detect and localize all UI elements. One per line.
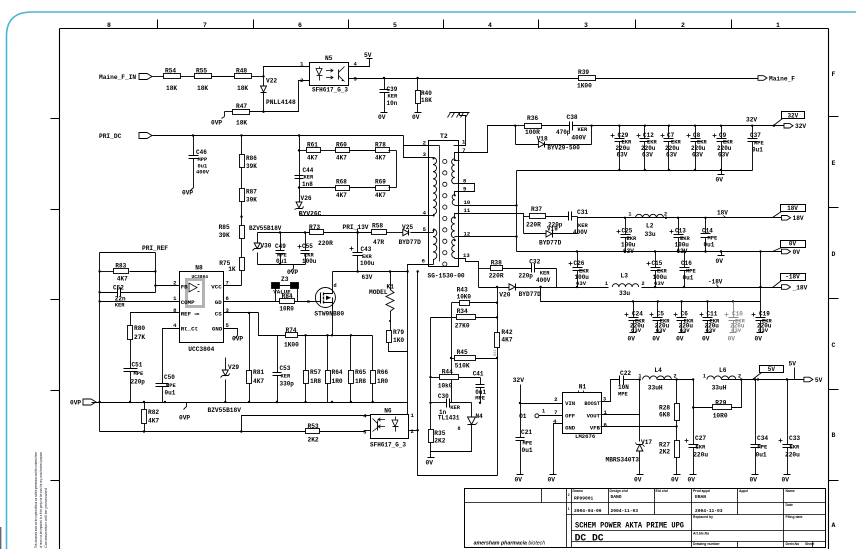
svg-text:C37: C37 xyxy=(750,132,761,139)
svg-text:0V: 0V xyxy=(789,241,797,248)
svg-text:R66: R66 xyxy=(377,369,388,376)
resistor R34 xyxy=(457,315,476,320)
svg-text:C5: C5 xyxy=(657,311,665,318)
svg-text:SG-1530-00: SG-1530-00 xyxy=(428,273,465,280)
wire COMP pin1 to left bus xyxy=(100,301,180,303)
wire lower rail to R53 xyxy=(99,403,101,432)
wire T2 pin7 riser xyxy=(460,126,516,153)
ground 0V C34 xyxy=(755,471,757,475)
wire bank rail to pin10 xyxy=(516,171,518,206)
resistor R36 xyxy=(516,125,525,127)
capacitor C14 xyxy=(705,218,707,234)
snubber left column 32V xyxy=(515,126,517,145)
svg-text:18V: 18V xyxy=(787,205,798,212)
svg-text:MPE: MPE xyxy=(618,392,628,398)
svg-text:PRI_DC: PRI_DC xyxy=(99,133,122,140)
svg-text:0V: 0V xyxy=(755,336,763,343)
svg-text:1R0: 1R0 xyxy=(377,378,388,385)
svg-text:Prod appd: Prod appd xyxy=(693,489,710,493)
capacitor C10 xyxy=(733,302,735,318)
svg-text:KER: KER xyxy=(540,271,550,277)
svg-text:KER: KER xyxy=(388,94,398,100)
svg-text:0V: 0V xyxy=(628,336,636,343)
svg-text:UCC3804: UCC3804 xyxy=(188,346,214,353)
resistor R37 xyxy=(524,216,530,218)
svg-text:0V: 0V xyxy=(688,477,696,484)
svg-text:2K2: 2K2 xyxy=(659,449,670,456)
svg-text:4K7: 4K7 xyxy=(253,378,264,385)
svg-text:MPE: MPE xyxy=(134,371,144,377)
svg-text:220R: 220R xyxy=(489,273,504,280)
svg-text:0VP: 0VP xyxy=(70,400,81,407)
resistor R68 xyxy=(300,187,336,189)
svg-text:0V: 0V xyxy=(652,336,660,343)
svg-text:0u1: 0u1 xyxy=(165,390,176,397)
svg-text:39K: 39K xyxy=(219,232,230,239)
boxed flag 0V xyxy=(781,241,806,248)
svg-text:BYV26C: BYV26C xyxy=(299,211,322,218)
ground 0VP cluster xyxy=(293,265,295,269)
svg-text:R61: R61 xyxy=(307,142,318,149)
svg-text:2K2: 2K2 xyxy=(308,437,319,444)
capacitor C12 xyxy=(644,126,646,139)
ground 0V V17 xyxy=(639,471,641,475)
resistor R84 xyxy=(280,299,295,304)
capacitor C15 xyxy=(651,267,661,269)
ground 0V C33 xyxy=(787,471,789,475)
wire L4 out node xyxy=(658,379,694,381)
svg-text:0V: 0V xyxy=(378,114,386,121)
svg-text:0VP: 0VP xyxy=(232,336,243,343)
wire O1 to OFF xyxy=(539,415,563,417)
svg-text:C33: C33 xyxy=(789,435,800,442)
wire VIN row xyxy=(521,403,563,405)
svg-text:VIN: VIN xyxy=(565,400,575,407)
wire snubber right column xyxy=(389,187,397,189)
svg-text:KER: KER xyxy=(450,405,460,411)
svg-text:1K: 1K xyxy=(228,266,236,273)
svg-text:R37: R37 xyxy=(531,206,542,213)
ground 0V at R40 xyxy=(417,109,419,113)
svg-text:GND: GND xyxy=(565,424,576,431)
diode V20 xyxy=(479,287,510,289)
wire T2 pin11 xyxy=(460,213,518,215)
svg-text:2: 2 xyxy=(681,22,685,29)
svg-text:L6: L6 xyxy=(719,367,727,374)
svg-text:BOOST: BOOST xyxy=(584,401,600,407)
svg-text:18V: 18V xyxy=(793,215,804,222)
resistor R66 xyxy=(372,336,374,371)
resistor R44 xyxy=(440,375,459,380)
svg-text:BYV29-500: BYV29-500 xyxy=(547,145,580,152)
svg-text:BYD77D: BYD77D xyxy=(519,291,542,298)
wire R55-R48 xyxy=(212,76,235,78)
wire R87-R85 xyxy=(241,202,243,226)
capacitor C16 xyxy=(680,267,690,269)
svg-text:4K7: 4K7 xyxy=(501,337,512,344)
resistor R38 xyxy=(479,268,491,270)
resistor R27 xyxy=(675,441,680,458)
svg-text:SFH617_G_3: SFH617_G_3 xyxy=(312,87,348,94)
wire T2 pin10 xyxy=(460,205,517,207)
flag Maine_F output xyxy=(758,76,767,81)
svg-text:10R0: 10R0 xyxy=(713,413,728,420)
svg-text:400V: 400V xyxy=(572,135,587,142)
diode V19 xyxy=(524,233,547,235)
svg-text:4K7: 4K7 xyxy=(148,418,159,425)
svg-text:-18V: -18V xyxy=(785,274,800,281)
svg-text:R79: R79 xyxy=(393,329,404,336)
svg-text:C15: C15 xyxy=(652,260,663,267)
capacitor C19 xyxy=(760,302,762,318)
svg-text:18K: 18K xyxy=(421,97,432,104)
svg-text:V25: V25 xyxy=(402,224,413,231)
svg-text:7: 7 xyxy=(203,22,207,29)
svg-text:1: 1 xyxy=(568,507,570,511)
svg-text:C44: C44 xyxy=(303,167,314,174)
svg-text:STW9NB80: STW9NB80 xyxy=(314,311,344,318)
svg-text:N6: N6 xyxy=(384,408,392,415)
svg-text:C46: C46 xyxy=(196,149,207,156)
svg-text:_18V: _18V xyxy=(792,284,808,291)
zener V26 xyxy=(296,202,302,208)
optocoupler N6 xyxy=(371,415,409,439)
svg-text:C52: C52 xyxy=(113,285,124,292)
capacitor C37 xyxy=(752,126,754,139)
svg-text:Eld chd: Eld chd xyxy=(656,489,668,493)
resistor R54 xyxy=(164,74,181,79)
ground 0V C19 xyxy=(757,332,764,334)
svg-text:R74: R74 xyxy=(286,327,297,334)
svg-text:4K7: 4K7 xyxy=(375,192,386,199)
capacitor C31 xyxy=(568,212,570,221)
svg-text:C9: C9 xyxy=(719,132,727,139)
svg-text:SCHEM POWER AKTA PRIME UPG: SCHEM POWER AKTA PRIME UPG xyxy=(575,522,684,531)
svg-text:R38: R38 xyxy=(491,260,502,267)
svg-text:R87: R87 xyxy=(246,189,257,196)
wire VCC pin7 xyxy=(224,285,242,287)
wire R85-R75 with PRI_REF tap xyxy=(241,239,243,258)
wire PRI_DC to T2 pin2 pin3 xyxy=(404,136,429,158)
svg-text:DANO: DANO xyxy=(611,494,622,500)
resistor R82 xyxy=(144,403,146,410)
svg-text:0u1: 0u1 xyxy=(756,452,767,459)
svg-text:C25: C25 xyxy=(622,228,633,235)
svg-text:R54: R54 xyxy=(165,68,176,75)
svg-text:EKR: EKR xyxy=(790,445,800,451)
snubber -18V columns xyxy=(478,269,480,288)
svg-text:470p: 470p xyxy=(556,129,571,136)
svg-text:400V: 400V xyxy=(196,170,210,176)
wire -18V cap bank rail xyxy=(541,288,761,302)
capacitor C44 xyxy=(295,175,304,177)
svg-text:220R: 220R xyxy=(318,240,333,247)
svg-text:220u: 220u xyxy=(693,452,708,459)
resistor R47 xyxy=(233,110,250,115)
capacitor C41 xyxy=(480,378,482,385)
svg-text:C55: C55 xyxy=(302,243,313,250)
svg-text:1R8: 1R8 xyxy=(310,378,321,385)
svg-text:MPE: MPE xyxy=(758,445,768,451)
wire VFB node xyxy=(601,426,677,428)
svg-text:Drawing number: Drawing number xyxy=(693,542,720,546)
svg-text:V20: V20 xyxy=(499,292,510,299)
diode V25 xyxy=(403,229,409,235)
inductor L2 xyxy=(636,214,664,217)
svg-text:C24: C24 xyxy=(632,311,643,318)
svg-text:63V: 63V xyxy=(642,152,653,159)
capacitor C55 xyxy=(305,233,307,251)
svg-text:1K00: 1K00 xyxy=(577,83,592,90)
svg-text:KER: KER xyxy=(115,303,125,309)
capacitor C11 xyxy=(707,302,709,318)
diode V18 xyxy=(591,126,593,145)
svg-text:C16: C16 xyxy=(681,260,692,267)
flag 18V output xyxy=(782,216,791,221)
svg-text:C29: C29 xyxy=(618,132,629,139)
svg-text:C6: C6 xyxy=(681,311,689,318)
svg-text:N8: N8 xyxy=(195,265,203,272)
wire node to N5 pin1 xyxy=(264,67,310,77)
capacitor C46 xyxy=(193,136,195,156)
svg-text:ERAN: ERAN xyxy=(695,494,706,500)
wire left bus xyxy=(99,253,101,403)
svg-text:C10: C10 xyxy=(732,311,743,318)
wire snubber left column xyxy=(299,136,301,151)
svg-text:R44: R44 xyxy=(442,369,453,376)
svg-text:OFF: OFF xyxy=(565,413,576,420)
svg-text:2004-04-06: 2004-04-06 xyxy=(574,508,602,514)
svg-text:C53: C53 xyxy=(280,365,291,372)
wire R44 row xyxy=(431,377,440,379)
resistor R86 xyxy=(241,136,243,155)
svg-text:R85: R85 xyxy=(219,224,230,231)
svg-text:C14: C14 xyxy=(702,228,713,235)
svg-text:10N: 10N xyxy=(618,384,629,391)
power 5V riser xyxy=(794,368,796,380)
svg-text:R34: R34 xyxy=(457,308,468,315)
inductor L3 xyxy=(612,284,638,287)
ground 0V R35 xyxy=(430,443,432,454)
flag 5V output xyxy=(804,377,813,382)
capacitor C52 xyxy=(100,292,118,294)
svg-text:C7: C7 xyxy=(667,132,675,139)
svg-text:R39: R39 xyxy=(578,69,589,76)
frame column ticks top xyxy=(157,20,159,29)
svg-text:N1: N1 xyxy=(579,384,587,391)
frame row ticks left xyxy=(51,118,60,120)
svg-text:220R: 220R xyxy=(526,222,541,229)
svg-text:0V: 0V xyxy=(676,336,684,343)
svg-text:Replaced by: Replaced by xyxy=(693,515,713,519)
svg-text:MODEL: MODEL xyxy=(369,289,388,296)
wire 0V drop xyxy=(516,206,518,252)
svg-text:0V: 0V xyxy=(716,177,724,184)
svg-text:L3: L3 xyxy=(621,273,629,280)
svg-text:10k0: 10k0 xyxy=(438,383,453,390)
svg-text:R68: R68 xyxy=(336,179,347,186)
svg-text:VOUT: VOUT xyxy=(587,413,601,420)
diode V22 xyxy=(263,77,265,86)
svg-text:C8: C8 xyxy=(693,132,701,139)
capacitor C22 xyxy=(619,376,621,385)
svg-text:V29: V29 xyxy=(228,364,239,371)
wire R43 row xyxy=(452,302,460,304)
svg-text:10R0: 10R0 xyxy=(279,306,294,313)
svg-text:0u1: 0u1 xyxy=(704,242,715,249)
svg-text:0V: 0V xyxy=(750,477,758,484)
svg-text:KER: KER xyxy=(281,374,291,380)
svg-text:BZV55B18V: BZV55B18V xyxy=(249,225,282,232)
T2 core xyxy=(443,159,447,163)
svg-text:5: 5 xyxy=(393,22,397,29)
svg-text:C50: C50 xyxy=(164,374,175,381)
resistor R74 xyxy=(286,333,298,338)
capacitor C29 xyxy=(619,126,621,139)
svg-text:4K7: 4K7 xyxy=(336,192,347,199)
svg-text:R83: R83 xyxy=(115,263,126,270)
svg-text:R65: R65 xyxy=(355,369,366,376)
wire R54-R55 xyxy=(181,76,195,78)
resistor R57 xyxy=(305,336,307,371)
svg-text:C12: C12 xyxy=(643,132,654,139)
resistor R43 xyxy=(460,301,470,306)
svg-text:C41: C41 xyxy=(473,371,484,378)
chassis ground xyxy=(450,112,470,114)
wire 32V rail xyxy=(592,125,784,127)
svg-text:0V: 0V xyxy=(793,249,801,256)
wire GND pin4 down xyxy=(554,424,563,471)
wire R37-C31 xyxy=(546,216,569,218)
wire T2 pin6 down xyxy=(408,265,429,352)
svg-text:RP99001: RP99001 xyxy=(574,496,594,502)
wire R38-C32 xyxy=(503,268,532,270)
wire T2 pin6 net to N6 pin2 and bottom rail xyxy=(418,272,498,476)
ground 0V at C39 xyxy=(384,109,386,113)
capacitor C8 xyxy=(695,126,697,139)
svg-text:R42: R42 xyxy=(494,350,498,356)
ic N8 UCC3804 xyxy=(180,272,224,343)
frame row ticks right xyxy=(829,116,839,118)
relay coil K1 MODEL xyxy=(390,272,392,290)
ground 0VP at C46 xyxy=(193,184,195,188)
wire 5V rail xyxy=(722,379,804,381)
wire R61-R60 xyxy=(321,150,336,152)
capacitor C49 xyxy=(280,233,282,251)
wire 0V rail xyxy=(517,251,782,253)
zener V30 xyxy=(257,233,259,244)
svg-text:63V: 63V xyxy=(666,152,677,159)
transformer T2 xyxy=(429,141,459,267)
svg-text:8: 8 xyxy=(458,426,461,432)
svg-text:18K: 18K xyxy=(166,85,177,92)
svg-text:220p: 220p xyxy=(519,273,534,280)
svg-text:10n: 10n xyxy=(387,100,398,107)
wire R75 to VCC xyxy=(241,271,243,286)
wire R29 tap xyxy=(693,380,695,408)
resistor R29 xyxy=(694,407,713,409)
svg-text:VCC: VCC xyxy=(211,283,222,290)
svg-text:C31: C31 xyxy=(577,209,588,216)
ground 0V C27 xyxy=(693,471,695,475)
resistor R48 xyxy=(235,74,252,79)
ground 0V C24 xyxy=(630,332,637,334)
svg-text:MPE: MPE xyxy=(475,396,485,402)
ground 0VP at R47 xyxy=(225,111,233,113)
svg-text:V18: V18 xyxy=(537,136,548,143)
wire V26 to T2 pin4 row xyxy=(299,212,301,216)
wire CS row xyxy=(224,312,259,314)
svg-text:1R8: 1R8 xyxy=(355,378,366,385)
capacitor C5 xyxy=(657,302,659,318)
resistor R60 xyxy=(336,148,350,153)
resistor R53 xyxy=(306,429,320,434)
ground 0V C21 xyxy=(520,471,522,475)
svg-text:PNLL4148: PNLL4148 xyxy=(266,99,296,106)
svg-text:V26: V26 xyxy=(301,195,312,202)
svg-text:C27: C27 xyxy=(695,435,706,442)
svg-text:0VP: 0VP xyxy=(179,415,190,422)
svg-text:B: B xyxy=(832,432,836,439)
svg-text:63V: 63V xyxy=(362,274,373,281)
ground 0VP mid rail xyxy=(186,403,188,407)
svg-text:4: 4 xyxy=(488,22,492,29)
T2 pin1 inner wire xyxy=(455,160,460,162)
ground 0V C6 xyxy=(679,332,686,334)
svg-text:4K7: 4K7 xyxy=(117,276,128,283)
resistor R45 xyxy=(455,356,476,361)
svg-text:R60: R60 xyxy=(336,142,347,149)
svg-text:R43: R43 xyxy=(457,287,468,294)
svg-text:0u1: 0u1 xyxy=(522,447,533,454)
ground 0V C11 xyxy=(705,332,712,334)
svg-text:C: C xyxy=(832,342,836,349)
resistor R69 xyxy=(376,186,390,191)
svg-text:1: 1 xyxy=(776,22,780,29)
capacitor C7 xyxy=(668,126,670,139)
resistor R73 xyxy=(310,230,324,235)
svg-text:D: D xyxy=(832,251,836,258)
capacitor C13 xyxy=(678,218,680,235)
ferrite Z3 xyxy=(275,286,277,302)
svg-text:R45: R45 xyxy=(457,349,468,356)
svg-text:L2: L2 xyxy=(646,223,654,230)
title block xyxy=(465,489,826,548)
wire REF pin8 xyxy=(131,313,180,326)
svg-text:18K: 18K xyxy=(197,85,208,92)
svg-text:C22: C22 xyxy=(620,370,631,377)
resistor R65 xyxy=(350,336,352,371)
svg-text:39K: 39K xyxy=(246,197,257,204)
svg-text:amersham pharmacia biotech: amersham pharmacia biotech xyxy=(474,541,546,547)
svg-text:Appd: Appd xyxy=(739,489,748,493)
svg-text:BYD77D: BYD77D xyxy=(539,240,562,247)
svg-text:T2: T2 xyxy=(440,133,448,140)
resistor R81 xyxy=(247,371,252,384)
wire GND pin5 0VP xyxy=(224,329,238,332)
svg-text:63V: 63V xyxy=(692,152,703,159)
flag -18V output xyxy=(782,285,791,290)
svg-text:1: 1 xyxy=(605,281,608,287)
wire R48 to node V22 xyxy=(252,76,264,78)
svg-text:1K00: 1K00 xyxy=(284,342,299,349)
svg-text:C49: C49 xyxy=(275,243,286,250)
capacitor C43 xyxy=(357,233,359,253)
svg-text:1n8: 1n8 xyxy=(302,181,313,188)
svg-text:MPE: MPE xyxy=(166,383,176,389)
optocoupler N5 xyxy=(310,63,349,86)
wire T2 pin1 shield xyxy=(460,116,466,146)
